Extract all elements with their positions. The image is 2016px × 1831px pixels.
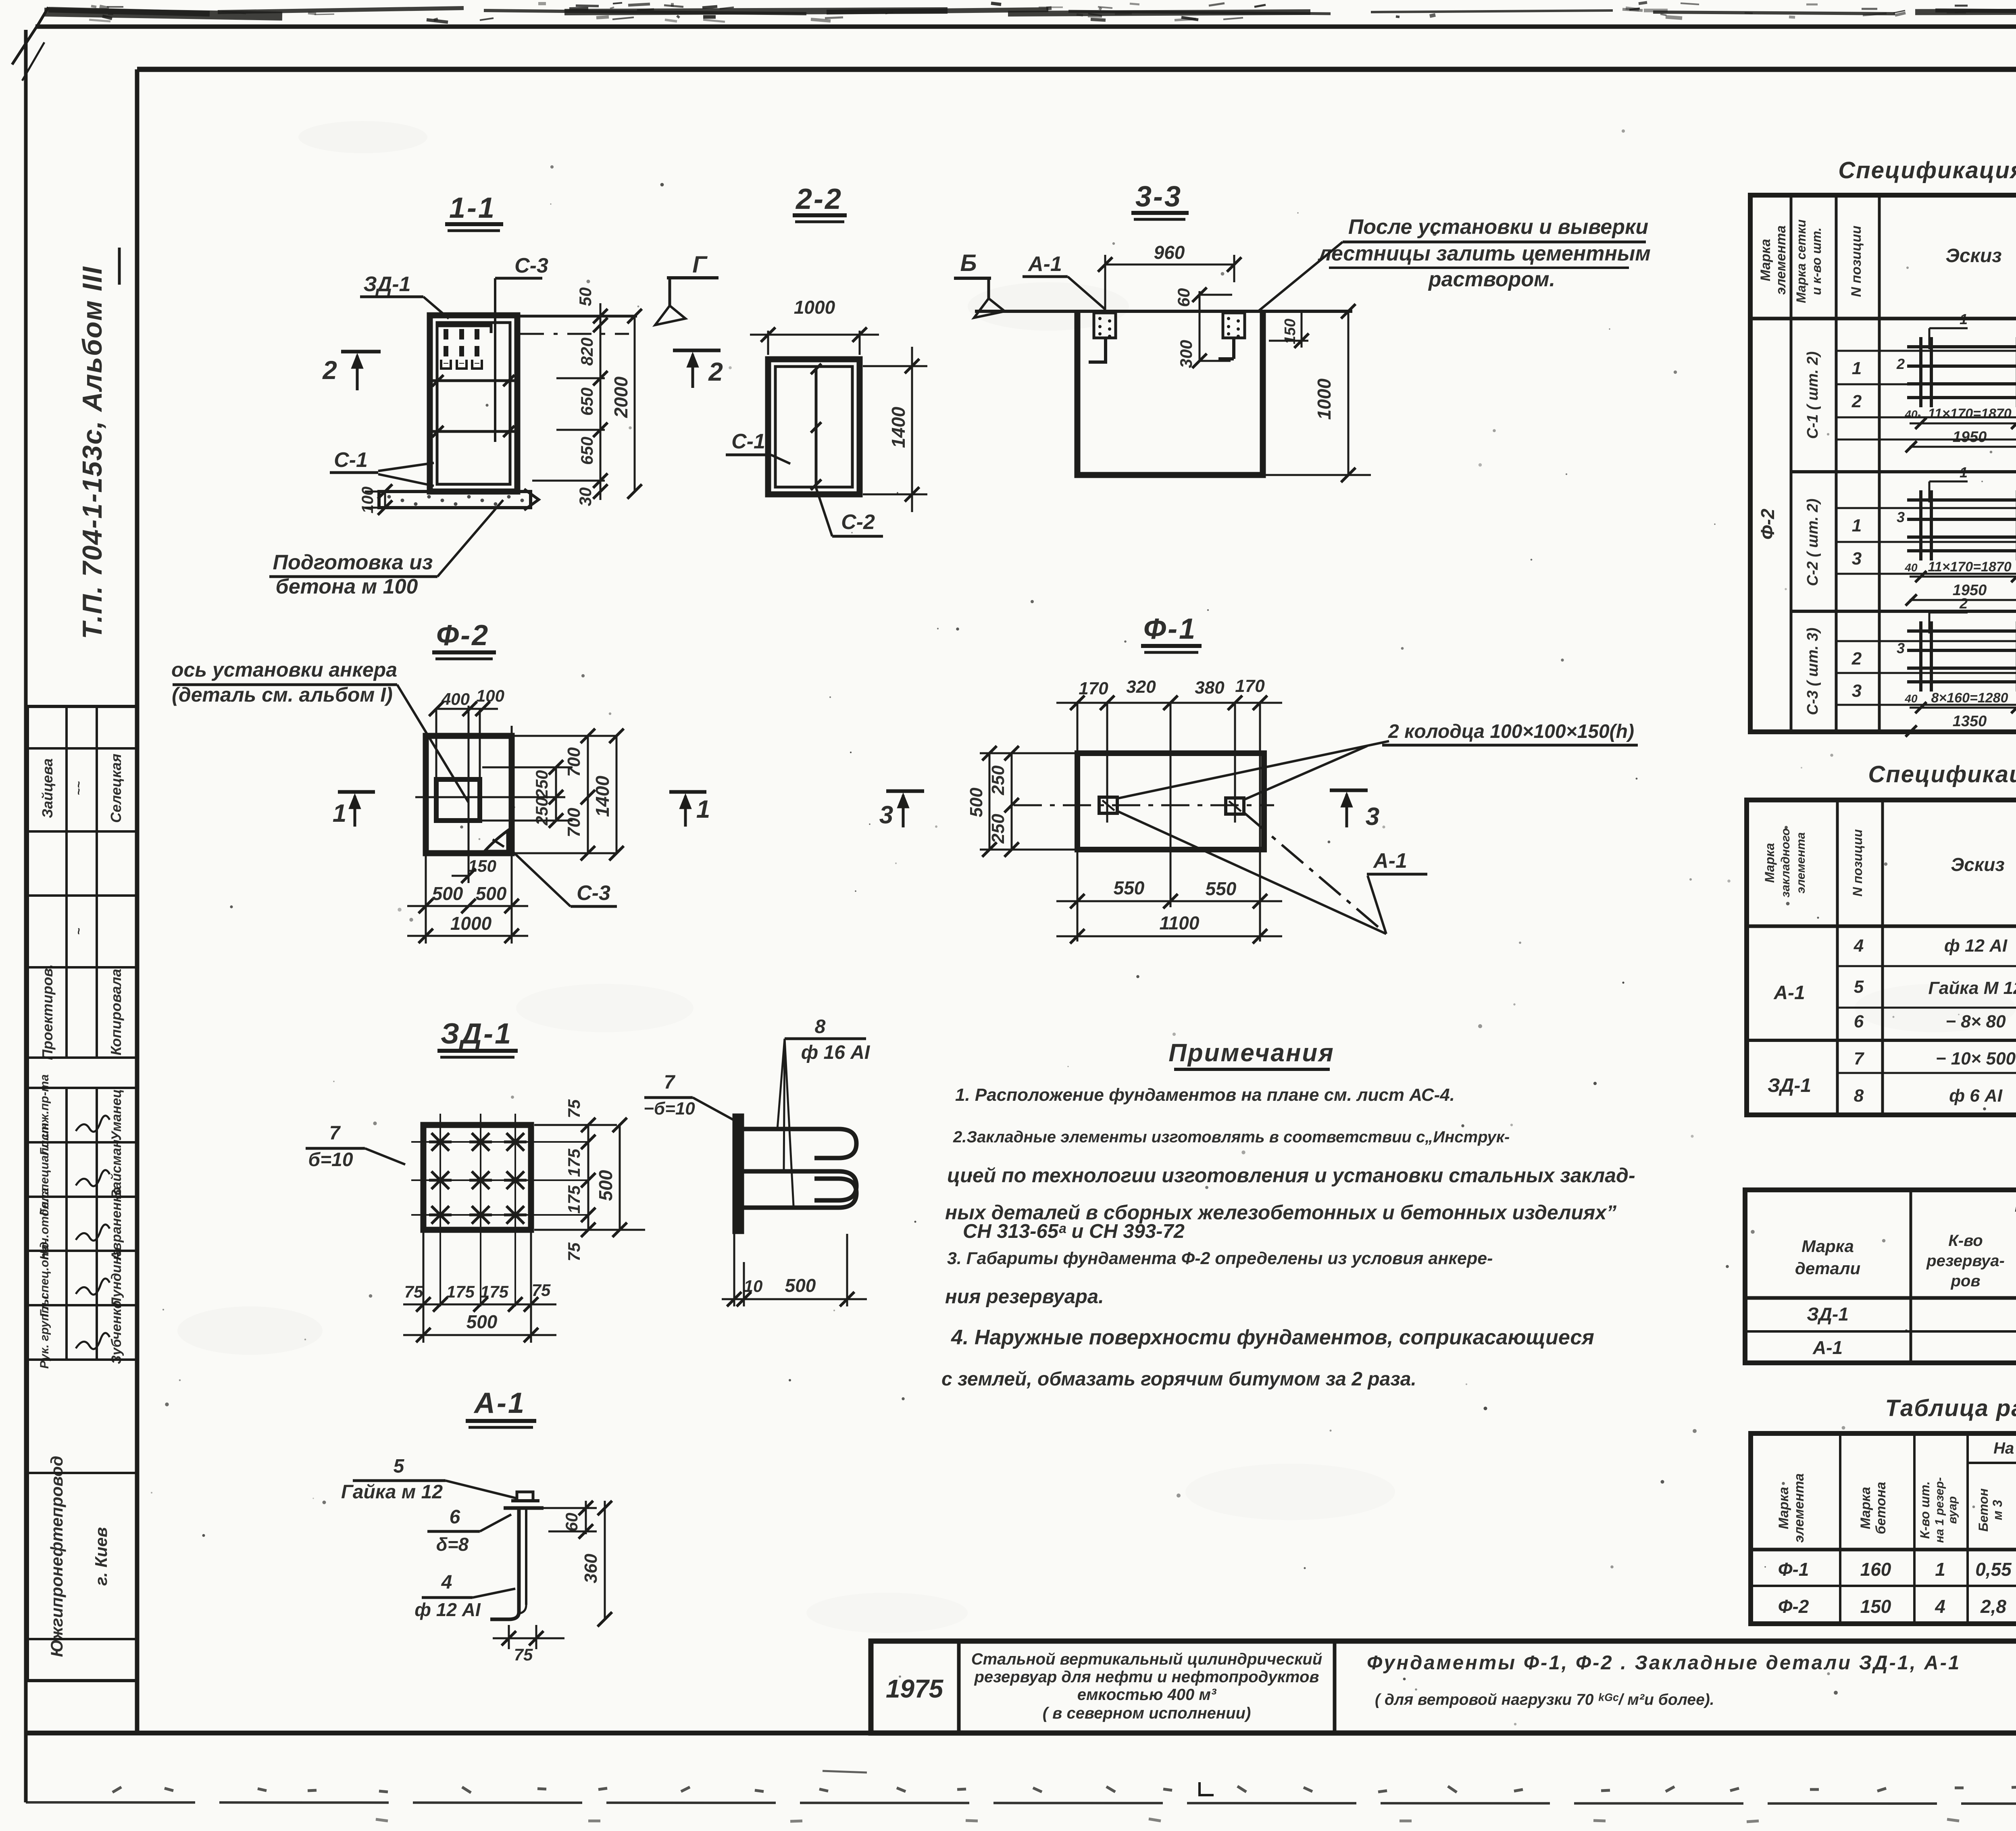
svg-text:ЗД-1: ЗД-1 bbox=[363, 273, 410, 296]
svg-text:− 8× 80: − 8× 80 bbox=[1945, 1012, 2006, 1031]
section 1-1 anchor studs dashed bbox=[444, 329, 448, 364]
svg-text:500: 500 bbox=[966, 787, 986, 817]
table1 frame bbox=[1750, 195, 2016, 732]
small scan artifact marks below frame bbox=[1200, 1782, 1214, 1795]
svg-text:2: 2 bbox=[1851, 392, 1862, 411]
svg-text:100: 100 bbox=[359, 487, 377, 514]
ZD-1 plan plate bbox=[423, 1125, 531, 1230]
A-1 dims 60 360 75 bbox=[585, 1501, 587, 1534]
svg-text:1950: 1950 bbox=[1953, 582, 1987, 599]
svg-text:1-1: 1-1 bbox=[449, 192, 496, 224]
svg-text:СН 313-65ᵃ и СН 393-72: СН 313-65ᵃ и СН 393-72 bbox=[963, 1221, 1185, 1242]
3-3 dim 150 right bbox=[1269, 340, 1308, 342]
F-2 corner detail C-3 bbox=[485, 831, 508, 851]
svg-text:детали: детали bbox=[1795, 1259, 1860, 1278]
svg-text:Примечания: Примечания bbox=[1168, 1039, 1335, 1067]
svg-text:Эскиз: Эскиз bbox=[1945, 245, 2001, 267]
svg-text:закладного: закладного bbox=[1779, 828, 1792, 898]
side view hooks bbox=[742, 1127, 839, 1131]
2-2 middle mesh bar bbox=[815, 369, 818, 485]
svg-text:на 1 резер-: на 1 резер- bbox=[1933, 1477, 1946, 1543]
svg-text:500: 500 bbox=[432, 883, 463, 904]
ZD-1 right dim chain 75/175/175/75 bbox=[587, 1125, 589, 1230]
F-1 bottom dims 550 550 1100 bbox=[1056, 900, 1282, 902]
svg-text:( в северном исполнении): ( в северном исполнении) bbox=[1043, 1704, 1251, 1722]
F-1 centerline horizontal bbox=[1014, 804, 1274, 806]
svg-text:А-1: А-1 bbox=[1372, 849, 1407, 873]
A-1 hook bbox=[490, 1612, 519, 1619]
svg-text:1950: 1950 bbox=[1953, 429, 1987, 446]
leader to anchor point bbox=[397, 685, 469, 802]
svg-text:−б=10: −б=10 bbox=[644, 1099, 695, 1119]
svg-text:75: 75 bbox=[514, 1645, 533, 1664]
table1 group dividers bbox=[1791, 470, 2016, 473]
svg-text:30: 30 bbox=[576, 487, 595, 506]
svg-text:7: 7 bbox=[329, 1123, 341, 1144]
svg-text:К-во шт.: К-во шт. bbox=[1918, 1481, 1932, 1539]
svg-text:δ=8: δ=8 bbox=[436, 1534, 469, 1555]
svg-text:150: 150 bbox=[1860, 1596, 1891, 1617]
svg-text:К-во: К-во bbox=[1948, 1232, 1983, 1250]
svg-text:1400: 1400 bbox=[592, 775, 613, 817]
svg-text:300: 300 bbox=[1177, 340, 1195, 368]
svg-text:1: 1 bbox=[1960, 464, 1968, 481]
section 1-1 foundation outline bbox=[430, 315, 517, 492]
svg-text:ф 6 АI: ф 6 АI bbox=[1949, 1086, 2003, 1106]
F-1 top dims bbox=[1056, 702, 1282, 704]
svg-text:1975: 1975 bbox=[886, 1674, 944, 1703]
svg-text:3: 3 bbox=[1852, 549, 1862, 569]
svg-text:5: 5 bbox=[394, 1456, 405, 1477]
F-2 outline bbox=[426, 736, 512, 853]
svg-text:550: 550 bbox=[1114, 877, 1145, 898]
svg-text:Марка: Марка bbox=[1776, 1487, 1791, 1529]
F-1 section marker 3 right bbox=[1330, 789, 1368, 792]
svg-text:2: 2 bbox=[1896, 356, 1905, 372]
svg-text:~: ~ bbox=[72, 928, 85, 935]
F-2 section marker 1 left bbox=[338, 790, 375, 794]
svg-text:Бетон: Бетон bbox=[1976, 1488, 1991, 1531]
svg-text:150: 150 bbox=[1282, 319, 1299, 344]
svg-text:1400: 1400 bbox=[888, 406, 909, 448]
svg-text:3: 3 bbox=[1366, 803, 1379, 831]
svg-text:7: 7 bbox=[1854, 1049, 1865, 1069]
table4 frame bbox=[1751, 1433, 2016, 1624]
table1 row lines bbox=[1836, 350, 2016, 352]
svg-text:цией по технологии изготовл: цией по технологии изготовления и устано… bbox=[947, 1164, 1635, 1187]
svg-text:0,55: 0,55 bbox=[1975, 1559, 2012, 1580]
svg-text:8: 8 bbox=[815, 1016, 826, 1037]
svg-text:40: 40 bbox=[1904, 561, 1918, 574]
svg-text:бетона м 100: бетона м 100 bbox=[276, 575, 418, 598]
F-2 bottom dims 500 500 1000 bbox=[425, 855, 427, 944]
mottling blobs bbox=[298, 121, 427, 153]
svg-text:500: 500 bbox=[467, 1311, 498, 1332]
A-1 plate line bbox=[504, 1506, 544, 1510]
svg-text:2: 2 bbox=[322, 356, 337, 385]
svg-text:Уманец: Уманец bbox=[109, 1089, 124, 1141]
F-1 leaders to A-1 bbox=[1118, 811, 1386, 934]
svg-text:м 3: м 3 bbox=[1990, 1500, 2005, 1521]
ZD-1 bottom dims bbox=[423, 1231, 425, 1343]
svg-text:Лундина: Лундина bbox=[109, 1249, 124, 1308]
svg-text:Марка: Марка bbox=[1801, 1237, 1854, 1256]
ZD-1 dim 500 right bbox=[619, 1125, 621, 1230]
svg-text:ния резервуара.: ния резервуара. bbox=[945, 1286, 1104, 1308]
svg-text:960: 960 bbox=[1154, 242, 1185, 263]
svg-text:2-2: 2-2 bbox=[795, 183, 843, 215]
svg-text:Б: Б bbox=[960, 250, 977, 276]
A-1 shaft bbox=[517, 1508, 521, 1612]
svg-text:1000: 1000 bbox=[450, 913, 492, 934]
svg-text:50: 50 bbox=[576, 287, 595, 306]
svg-text:Зубченко: Зубченко bbox=[109, 1300, 124, 1364]
table1 sketch bbox=[1929, 481, 1968, 483]
svg-text:170: 170 bbox=[1235, 676, 1265, 696]
svg-text:360: 360 bbox=[581, 1554, 601, 1583]
table4 header bottom bbox=[1751, 1548, 2016, 1552]
svg-text:40: 40 bbox=[1904, 408, 1918, 421]
inner frame top bbox=[137, 67, 2016, 72]
3-3 right anchor bbox=[1223, 313, 1245, 338]
svg-text:г. Киев: г. Киев bbox=[92, 1527, 110, 1585]
svg-text:10: 10 bbox=[744, 1277, 763, 1296]
svg-text:ось установки анкера: ось установки анкера bbox=[171, 658, 397, 681]
svg-text:А-1: А-1 bbox=[1027, 252, 1062, 276]
svg-text:элемента: элемента bbox=[1773, 225, 1789, 295]
outer left scan border bbox=[24, 30, 28, 1802]
svg-text:Спецификация стали на 1 зак: Спецификация стали на 1 закладной элемен… bbox=[1868, 761, 2016, 787]
svg-text:175: 175 bbox=[564, 1148, 583, 1177]
table2 header bottom bbox=[1747, 925, 2016, 928]
table3 header bottom bbox=[1745, 1296, 2016, 1300]
bottom scan dotted lines bbox=[26, 1802, 2016, 1804]
svg-text:Южгипронефтепровод: Южгипронефтепровод bbox=[47, 1456, 66, 1657]
svg-text:С-1: С-1 bbox=[731, 430, 765, 453]
section cut marker 2 left bbox=[341, 350, 381, 354]
table2 row lines bbox=[1837, 965, 2016, 967]
svg-text:500: 500 bbox=[595, 1170, 616, 1201]
svg-text:4. Наружные поверхности фунд: 4. Наружные поверхности фундаментов, соп… bbox=[951, 1326, 1594, 1349]
outer top frame line bbox=[35, 25, 2016, 29]
svg-text:Марка сетки: Марка сетки bbox=[1794, 219, 1808, 303]
svg-text:С-1: С-1 bbox=[334, 448, 368, 472]
svg-text:Подготовка из: Подготовка из bbox=[273, 551, 433, 574]
svg-text:Селецкая: Селецкая bbox=[108, 754, 124, 823]
svg-text:3: 3 bbox=[1852, 681, 1862, 701]
svg-text:раствором.: раствором. bbox=[1428, 268, 1555, 291]
svg-text:Фундаменты Ф-1, Ф-2 . Заклад: Фундаменты Ф-1, Ф-2 . Закладные детали З… bbox=[1367, 1652, 1961, 1674]
svg-text:Проектиров.: Проектиров. bbox=[39, 964, 56, 1060]
svg-text:Марка: Марка bbox=[1758, 239, 1773, 281]
leader to anchor well bbox=[1257, 242, 1343, 312]
svg-text:(деталь см. альбом I): (деталь см. альбом I) bbox=[172, 683, 393, 706]
svg-text:1: 1 bbox=[1960, 311, 1968, 327]
svg-text:1: 1 bbox=[1852, 516, 1862, 535]
svg-text:ф 12 АI: ф 12 АI bbox=[1944, 936, 2008, 956]
3-3 left anchor bbox=[1094, 313, 1116, 338]
svg-text:С-2 ( шт. 2): С-2 ( шт. 2) bbox=[1804, 499, 1821, 586]
svg-text:250: 250 bbox=[532, 770, 551, 799]
svg-text:3. Габариты фундамента Ф-2: 3. Габариты фундамента Ф-2 определены из… bbox=[947, 1249, 1493, 1268]
table1 header bottom bbox=[1750, 317, 2016, 321]
F-1 left dims 250 250 500 bbox=[1011, 753, 1013, 850]
svg-text:( для ветровой нагрузки 70: ( для ветровой нагрузки 70 ᵏᴳᶜ/ м²и боле… bbox=[1375, 1691, 1714, 1708]
svg-text:175: 175 bbox=[480, 1282, 509, 1301]
svg-text:С-1 ( шт. 2): С-1 ( шт. 2) bbox=[1804, 352, 1821, 439]
svg-text:320: 320 bbox=[1126, 677, 1156, 697]
F-2 section marker 1 right bbox=[669, 790, 706, 794]
svg-text:Таблица расхода материалов: Таблица расхода материалов bbox=[1885, 1395, 2016, 1421]
F-1 outline bbox=[1077, 753, 1264, 850]
1-1 dimension chain right bbox=[600, 303, 602, 500]
section 2-2 square bbox=[768, 359, 860, 494]
svg-text:Г: Г bbox=[692, 252, 708, 278]
svg-text:лестницы залить цементным: лестницы залить цементным bbox=[1317, 242, 1651, 265]
top-left corner scratches bbox=[12, 7, 48, 65]
svg-text:элемента: элемента bbox=[1791, 1473, 1807, 1543]
svg-text:резервуар для нефти и нефтопро: резервуар для нефти и нефтопродуктов bbox=[974, 1668, 1319, 1686]
svg-text:ф 16 АI: ф 16 АI bbox=[801, 1042, 871, 1063]
svg-text:С-3: С-3 bbox=[577, 881, 610, 905]
table2 frame bbox=[1747, 800, 2016, 1115]
svg-text:А-1: А-1 bbox=[1812, 1337, 1843, 1358]
svg-text:250: 250 bbox=[988, 765, 1008, 796]
F-2 dim 1400 bbox=[616, 736, 618, 853]
F-1 leaders to wells note bbox=[1118, 741, 1389, 798]
svg-text:1000: 1000 bbox=[794, 297, 835, 318]
svg-text:2 колодца 100×100×150(h): 2 колодца 100×100×150(h) bbox=[1388, 721, 1634, 742]
svg-text:Ф-1: Ф-1 bbox=[1778, 1559, 1809, 1580]
svg-text:550: 550 bbox=[1206, 878, 1237, 899]
section 1-1 concrete prep strip bbox=[379, 492, 531, 508]
frame bottom bbox=[26, 1731, 2016, 1735]
svg-text:500: 500 bbox=[476, 883, 507, 904]
svg-text:2: 2 bbox=[1959, 595, 1968, 612]
F-2 centerlines bbox=[468, 706, 470, 883]
svg-text:N позиции: N позиции bbox=[1849, 225, 1864, 297]
svg-text:11×170=1870: 11×170=1870 bbox=[1928, 406, 2011, 421]
svg-text:4: 4 bbox=[1935, 1596, 1945, 1617]
svg-text:Гайка М 12: Гайка М 12 bbox=[1928, 978, 2016, 998]
table1 sketch bbox=[1929, 612, 1968, 614]
svg-text:ров: ров bbox=[1950, 1272, 1980, 1290]
svg-text:500: 500 bbox=[785, 1275, 816, 1296]
3-3 dims 60 and 300 bbox=[1199, 291, 1201, 361]
svg-text:Марка: Марка bbox=[1762, 843, 1777, 883]
svg-text:400: 400 bbox=[441, 689, 470, 708]
svg-text:Эскиз: Эскиз bbox=[1951, 854, 2005, 875]
svg-text:3-3: 3-3 bbox=[1135, 181, 1182, 213]
svg-text:− 10× 500: − 10× 500 bbox=[1936, 1049, 2016, 1069]
F-1 anchor axes vertical bbox=[1106, 703, 1108, 823]
1-1 top level line bbox=[517, 315, 637, 318]
svg-text:емкостью 400 м³: емкостью 400 м³ bbox=[1077, 1686, 1217, 1704]
svg-text:3: 3 bbox=[1897, 509, 1905, 525]
svg-text:Ф-2: Ф-2 bbox=[1778, 1596, 1809, 1617]
inner frame left bbox=[135, 69, 140, 1733]
svg-text:6: 6 bbox=[1854, 1012, 1864, 1031]
svg-text:3: 3 bbox=[879, 801, 893, 829]
svg-text:5: 5 bbox=[1854, 977, 1864, 997]
svg-text:650: 650 bbox=[577, 437, 596, 465]
svg-text:75: 75 bbox=[564, 1242, 583, 1261]
svg-text:75: 75 bbox=[564, 1099, 583, 1118]
scan noise band top bbox=[44, 2, 2016, 22]
svg-text:7: 7 bbox=[664, 1072, 676, 1093]
svg-text:С-2: С-2 bbox=[841, 510, 875, 534]
svg-text:60: 60 bbox=[1174, 288, 1193, 307]
svg-text:~~: ~~ bbox=[72, 781, 85, 795]
svg-text:С-3 ( шт. 3): С-3 ( шт. 3) bbox=[1804, 628, 1821, 715]
table1 sketch bbox=[1929, 327, 1968, 329]
1-1 dim 100 left bbox=[384, 492, 386, 508]
2-2 dim 1000 top bbox=[767, 331, 769, 355]
svg-text:6: 6 bbox=[450, 1506, 460, 1528]
svg-text:75: 75 bbox=[404, 1282, 423, 1301]
1-1 overall dim 2000 bbox=[634, 316, 636, 492]
svg-text:40: 40 bbox=[1904, 692, 1918, 705]
svg-text:Ф-1: Ф-1 bbox=[1143, 613, 1197, 645]
svg-text:175: 175 bbox=[564, 1185, 583, 1214]
svg-text:резервуа-: резервуа- bbox=[1926, 1252, 2005, 1270]
svg-text:На 1 элемент: На 1 элемент bbox=[1993, 1439, 2016, 1457]
svg-text:1000: 1000 bbox=[1314, 378, 1335, 420]
svg-text:8: 8 bbox=[1854, 1086, 1864, 1106]
svg-text:N позиции: N позиции bbox=[1850, 829, 1865, 897]
3-3 ground line bbox=[975, 310, 1352, 313]
svg-text:170: 170 bbox=[1079, 679, 1108, 698]
A-1 bolt assembly bbox=[517, 1492, 533, 1501]
svg-text:1100: 1100 bbox=[1160, 912, 1200, 933]
svg-text:2000: 2000 bbox=[610, 376, 631, 418]
svg-text:250: 250 bbox=[532, 797, 551, 826]
svg-text:и к-во шт.: и к-во шт. bbox=[1809, 227, 1824, 295]
svg-text:с землей, обмазать горячим: с землей, обмазать горячим битумом за 2 … bbox=[941, 1369, 1416, 1390]
svg-text:Ф-2: Ф-2 bbox=[436, 619, 489, 652]
svg-text:Т.П. 704-1-153с, Альбом III: Т.П. 704-1-153с, Альбом III bbox=[77, 266, 108, 639]
ZD-1 side view bbox=[734, 1115, 742, 1232]
svg-text:75: 75 bbox=[532, 1281, 551, 1300]
svg-text:2,8: 2,8 bbox=[1980, 1596, 2006, 1617]
svg-text:элемента: элемента bbox=[1794, 832, 1808, 894]
svg-text:1: 1 bbox=[333, 800, 346, 827]
svg-text:Ф-2: Ф-2 bbox=[1757, 508, 1778, 540]
table3 frame bbox=[1745, 1190, 2016, 1363]
svg-text:820: 820 bbox=[577, 337, 596, 366]
svg-text:Стальной вертикальный цилиндри: Стальной вертикальный цилиндрический bbox=[971, 1650, 1322, 1668]
svg-text:2: 2 bbox=[708, 357, 723, 386]
svg-text:б=10: б=10 bbox=[308, 1149, 353, 1171]
svg-text:175: 175 bbox=[446, 1282, 475, 1301]
svg-text:Копировала: Копировала bbox=[108, 969, 124, 1056]
F-1 anchors bbox=[1099, 797, 1117, 813]
svg-text:1: 1 bbox=[696, 796, 710, 823]
svg-text:11×170=1870: 11×170=1870 bbox=[1928, 559, 2011, 575]
section 1-1 mesh horizontal bars bbox=[431, 379, 516, 382]
svg-text:А-1: А-1 bbox=[473, 1387, 526, 1419]
svg-text:А-1: А-1 bbox=[1773, 982, 1805, 1004]
svg-text:3: 3 bbox=[1897, 640, 1905, 656]
svg-text:ЗД-1: ЗД-1 bbox=[441, 1018, 512, 1050]
svg-text:1: 1 bbox=[1852, 358, 1862, 378]
svg-text:ф 12 АI: ф 12 АI bbox=[414, 1599, 481, 1620]
2-2 dim 1400 right bbox=[863, 365, 927, 367]
svg-text:8×160=1280: 8×160=1280 bbox=[1931, 690, 2008, 706]
svg-text:После установки и выверки: После установки и выверки bbox=[1348, 215, 1648, 239]
svg-text:700: 700 bbox=[564, 747, 584, 777]
F-2 inner dims 250 250 bbox=[555, 767, 557, 821]
svg-text:1350: 1350 bbox=[1953, 713, 1987, 730]
F-2 right dim chain 700/700 bbox=[587, 736, 589, 853]
svg-text:60: 60 bbox=[562, 1513, 581, 1532]
svg-text:380: 380 bbox=[1195, 678, 1225, 698]
section cut marker 2 right bbox=[673, 349, 721, 352]
side view bottom dims 10 500 bbox=[733, 1234, 735, 1306]
svg-text:Гайка м 12: Гайка м 12 bbox=[341, 1481, 443, 1503]
svg-text:ЗД-1: ЗД-1 bbox=[1768, 1075, 1811, 1096]
title block frame bbox=[871, 1641, 2016, 1733]
svg-text:650: 650 bbox=[577, 387, 596, 416]
svg-text:160: 160 bbox=[1860, 1559, 1891, 1580]
ZD-1 anchor marks bbox=[429, 1133, 527, 1224]
svg-text:ЗД-1: ЗД-1 bbox=[1807, 1304, 1849, 1325]
3-3 foundation block bbox=[1077, 311, 1263, 475]
section 1-1 embedded plate ZD-1 bbox=[437, 323, 491, 327]
svg-text:Рук. группы: Рук. группы bbox=[38, 1296, 51, 1369]
svg-text:бетона: бетона bbox=[1873, 1482, 1889, 1534]
3-3 dim 1000 right bbox=[1347, 311, 1350, 475]
svg-text:700: 700 bbox=[564, 808, 584, 837]
svg-text:2.Закладные элементы изготов: 2.Закладные элементы изготовлять в соотв… bbox=[953, 1128, 1510, 1146]
svg-text:1: 1 bbox=[1935, 1559, 1945, 1580]
svg-text:4: 4 bbox=[441, 1572, 452, 1593]
svg-text:Зайцева: Зайцева bbox=[39, 758, 56, 818]
prep strip arrow end bbox=[524, 489, 539, 510]
svg-text:Спецификация арматуры на 1: Спецификация арматуры на 1 элемент bbox=[1838, 157, 2016, 183]
F-2 embedded plate ZD-1 bbox=[436, 779, 480, 821]
svg-text:4: 4 bbox=[1854, 936, 1864, 956]
svg-text:вуар: вуар bbox=[1946, 1496, 1959, 1524]
ZD-1 anchor grid lines bbox=[439, 1114, 441, 1306]
signature stamp table (rotated) bbox=[26, 706, 29, 1681]
svg-text:Марка: Марка bbox=[1858, 1487, 1873, 1529]
svg-text:1. Расположение фундаментов: 1. Расположение фундаментов на плане см.… bbox=[955, 1085, 1455, 1105]
F-1 section marker 3 left bbox=[886, 789, 924, 793]
svg-text:250: 250 bbox=[988, 814, 1008, 844]
svg-text:2: 2 bbox=[1851, 649, 1862, 669]
svg-text:С-3: С-3 bbox=[514, 254, 548, 277]
